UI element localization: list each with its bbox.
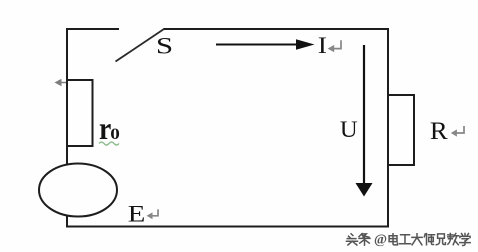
label r0 — [99, 112, 120, 146]
wire left side — [66, 28, 68, 227]
svg-text:U: U — [340, 118, 358, 143]
svg-text:S: S — [156, 32, 173, 59]
wire right side — [387, 28, 389, 227]
battery / source E (ellipse) — [39, 164, 117, 217]
svg-text:E: E — [128, 201, 146, 227]
return mark after R — [451, 126, 464, 137]
wire top-left segment — [66, 28, 119, 30]
wire bottom — [66, 226, 389, 228]
return mark after E — [147, 209, 158, 219]
svg-text:@: @ — [374, 233, 387, 248]
voltage arrow U — [356, 45, 373, 197]
wire top-right segment — [164, 28, 390, 30]
node marker arrow (gray, left of r0) — [55, 79, 68, 86]
resistor r0 — [67, 80, 93, 146]
svg-text:I: I — [318, 33, 327, 58]
switch S blade — [116, 29, 165, 62]
resistor R — [388, 95, 414, 165]
svg-text:0: 0 — [110, 125, 120, 143]
svg-text:R: R — [430, 117, 449, 145]
grammar squiggle under r0 — [99, 142, 119, 145]
current arrow I — [216, 39, 315, 49]
return mark after I — [328, 40, 341, 52]
